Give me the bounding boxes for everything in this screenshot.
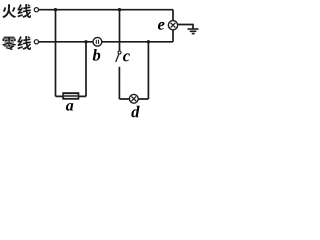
wire neutral horizontal — [39, 41, 173, 43]
junction dot live-switch — [118, 8, 121, 11]
fuse a body — [63, 93, 78, 99]
junction dot neutral-dloop — [147, 40, 150, 43]
label b — [93, 49, 101, 61]
junction dot live-fuse — [54, 8, 57, 11]
label e — [158, 22, 165, 30]
wire d-loop right riser — [147, 42, 149, 99]
terminal neutral — [34, 40, 38, 44]
terminal live — [34, 8, 38, 12]
wire switch column lower — [118, 67, 120, 99]
wire e drop vertical — [172, 10, 174, 42]
junction dot neutral-fuse — [84, 40, 87, 43]
label d — [131, 106, 139, 118]
label huoxian (live wire text) — [2, 4, 31, 18]
wire live horizontal — [39, 9, 173, 11]
ground symbol — [188, 29, 199, 34]
label lingxian (neutral wire text) — [2, 36, 31, 50]
wire fuse-loop right vertical — [85, 42, 87, 97]
switch c blade — [116, 54, 119, 62]
wire switch column upper — [119, 10, 121, 51]
lamp d — [129, 94, 138, 103]
label a — [66, 103, 73, 111]
lamp e — [168, 21, 177, 30]
label c — [123, 53, 130, 61]
wire d-loop bottom — [119, 98, 148, 100]
wire fuse-loop bottom — [56, 95, 87, 97]
switch c pivot circle — [118, 51, 121, 54]
socket b — [93, 37, 102, 46]
wire fuse-loop left vertical — [55, 10, 57, 97]
wire e to ground — [178, 25, 194, 30]
